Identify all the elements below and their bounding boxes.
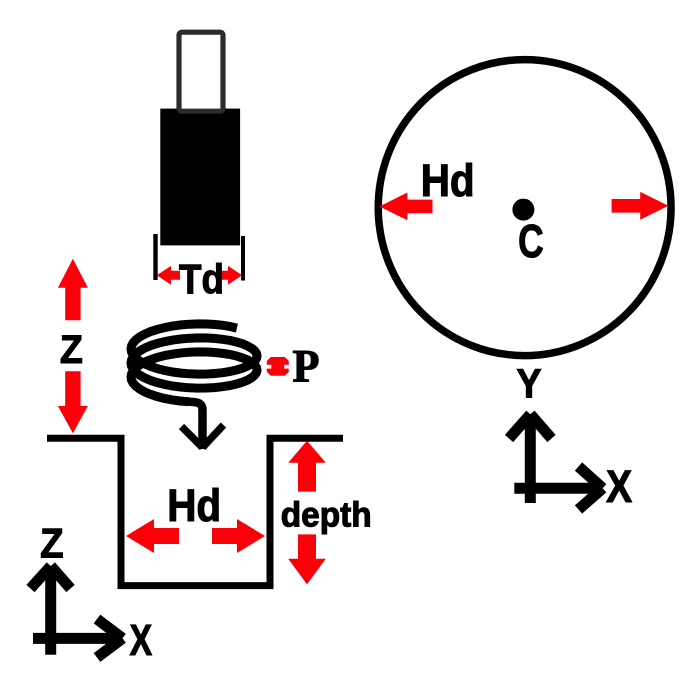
Td arrow left [157,266,180,285]
svg-text:Z: Z [40,520,64,567]
svg-text:Z: Z [60,328,83,372]
svg-text:Hd: Hd [167,480,221,531]
svg-text:Y: Y [517,360,542,406]
pitch arrow notches [266,365,271,369]
circle Hd arrow left [379,193,432,221]
pocket outline [47,438,343,585]
Z axis arrow [31,566,71,655]
Td arrow right [220,266,242,285]
Z dimension arrow up [58,259,88,321]
tool shank [179,32,223,111]
svg-text:Hd: Hd [421,155,475,206]
svg-text:C: C [518,215,544,267]
svg-text:P: P [293,341,320,392]
X axis arrow bottom-right [514,467,602,510]
svg-text:X: X [130,616,153,665]
Hd arrow left [126,519,179,553]
svg-text:Td: Td [179,256,224,303]
svg-text:depth: depth [281,496,372,535]
X axis arrow bottom-left [33,619,123,658]
helix toolpath [131,324,257,402]
tool body [160,109,240,246]
Z dimension arrow down [58,371,88,433]
pitch arrow P [267,357,289,376]
Td extension line left [153,234,157,280]
svg-text:X: X [606,461,632,512]
Y axis arrow [509,414,552,503]
circle Hd arrow right [612,192,669,220]
Hd arrow right [212,519,265,553]
depth arrow down [288,534,326,584]
depth arrow up [288,441,326,492]
Td extension line right [241,236,245,281]
center dot C [512,199,534,221]
hole circle [378,60,671,356]
plunge arrow [186,401,203,449]
plunge arrowhead [182,425,224,448]
